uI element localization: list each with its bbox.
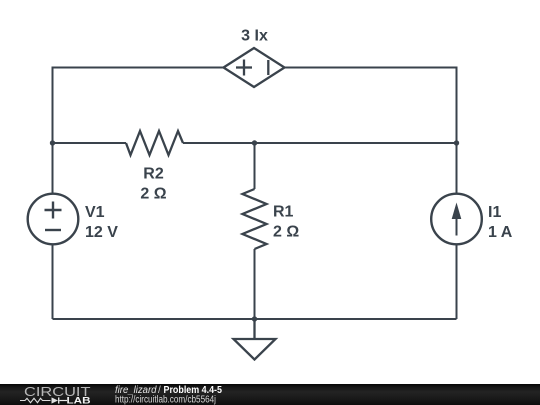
svg-text:V1: V1: [85, 204, 105, 221]
junction node bottom: [252, 316, 257, 321]
svg-text:12 V: 12 V: [85, 224, 118, 241]
svg-text:LAB: LAB: [67, 396, 92, 405]
wire R1 top stub: [254, 143, 256, 189]
junction node right-mid: [454, 140, 459, 145]
current source I1 arrowhead: [452, 203, 462, 220]
voltage source V1: [28, 194, 79, 245]
junction node center-mid: [252, 140, 257, 145]
svg-text:I1: I1: [488, 204, 501, 221]
logo resistor zigzag: [20, 398, 51, 402]
ground: [234, 319, 276, 360]
svg-text:R1: R1: [273, 204, 294, 221]
wire right vertical lower: [456, 245, 458, 320]
dependent source U1 3Ix diamond: [224, 48, 285, 87]
resistor R1: [243, 189, 267, 249]
current source I1: [431, 194, 482, 245]
wire top-left horizontal: [53, 68, 224, 194]
wire middle horizontal right: [183, 142, 457, 144]
wire top-right horizontal: [285, 68, 457, 194]
svg-text:3 Ix: 3 Ix: [241, 28, 268, 45]
wire middle horizontal left: [53, 142, 127, 144]
logo diode: [52, 397, 59, 403]
svg-text:1 A: 1 A: [488, 224, 513, 241]
svg-text:R2: R2: [143, 166, 164, 183]
wire left vertical lower: [52, 245, 54, 320]
logo diode tail: [60, 400, 68, 402]
svg-text:2 Ω: 2 Ω: [140, 186, 166, 203]
svg-text:http://circuitlab.com/cb5564j: http://circuitlab.com/cb5564j: [115, 395, 216, 405]
footer bar: [0, 384, 540, 405]
resistor R2: [126, 131, 183, 155]
wire bottom horizontal: [53, 318, 457, 320]
svg-text:2 Ω: 2 Ω: [273, 224, 299, 241]
wire R1 bottom stub: [254, 249, 256, 319]
junction node left-mid: [50, 140, 55, 145]
logo diode bar: [58, 397, 60, 403]
